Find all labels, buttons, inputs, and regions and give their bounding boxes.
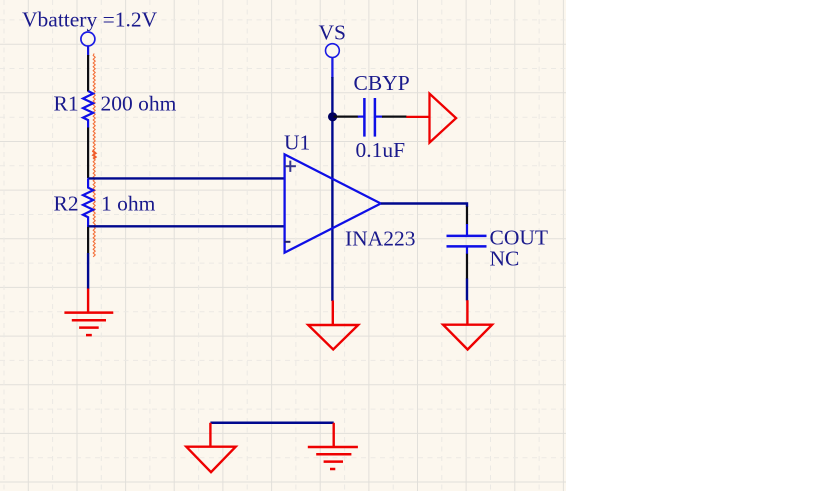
label COUT	[490, 226, 549, 250]
resistor R2	[83, 178, 93, 227]
wire battery top black segment	[87, 55, 89, 92]
wire junction to CBYP black segment	[334, 115, 359, 117]
svg-text:0.1uF: 0.1uF	[356, 138, 406, 162]
wire bottom left red segment	[209, 423, 211, 447]
wire Vbattery stub	[87, 46, 89, 56]
svg-text:INA223: INA223	[345, 227, 415, 251]
wire op-amp output	[381, 204, 467, 208]
svg-text:CBYP: CBYP	[354, 71, 410, 95]
label INA223	[345, 227, 415, 251]
wire R1 to node black segment	[87, 128, 89, 179]
port arrow right of CBYP	[406, 94, 456, 143]
label R1 value 200 ohm	[101, 92, 177, 116]
wire output to COUT black segment	[466, 207, 468, 225]
ground power port under op-amp	[308, 325, 358, 350]
wire COUT to ground black segment	[466, 254, 468, 279]
label R2 value 1 ohm	[101, 192, 156, 216]
label R2	[54, 192, 79, 216]
label U1	[284, 131, 310, 155]
wire R2 to ground black segment	[87, 227, 89, 254]
terminal circle Vbattery	[81, 32, 95, 46]
ground power port under COUT	[443, 325, 492, 350]
wire op-amp plus input	[88, 177, 285, 179]
ground battery earth symbol	[64, 313, 113, 336]
wire bottom right red segment	[333, 423, 335, 447]
label VS	[319, 21, 346, 45]
wire COUT ground navy segment	[466, 279, 468, 301]
capacitor CBYP	[358, 98, 383, 137]
svg-text:R1: R1	[54, 92, 79, 116]
wire VS supply vertical	[331, 58, 333, 302]
label CBYP	[354, 71, 410, 95]
op-amp minus pin mark	[284, 241, 290, 243]
error marker squiggle dense spot	[93, 150, 96, 160]
op-amp U1	[285, 154, 381, 252]
wire CBYP to port black segment	[382, 115, 407, 117]
svg-text:U1: U1	[284, 131, 310, 155]
wire op-amp minus input	[88, 225, 285, 227]
svg-text:1 ohm: 1 ohm	[101, 192, 156, 216]
ground power port bottom left	[186, 447, 235, 473]
wire COUT ground red segment	[466, 300, 468, 325]
junction dot VS node	[328, 112, 337, 121]
wire ground navy segment	[87, 253, 89, 289]
wire bottom horizontal	[210, 422, 333, 425]
label Vbattery =1.2V	[22, 8, 158, 32]
svg-text:VS: VS	[319, 21, 346, 45]
wire VS ground red segment	[332, 301, 334, 326]
error marker squiggle	[93, 54, 95, 257]
svg-text:Vbattery =1.2V: Vbattery =1.2V	[22, 8, 158, 32]
capacitor COUT	[447, 224, 487, 254]
svg-text:R2: R2	[54, 192, 79, 216]
svg-text:NC: NC	[490, 247, 520, 271]
svg-text:200 ohm: 200 ohm	[101, 92, 177, 116]
terminal circle VS	[326, 44, 340, 58]
op-amp plus pin mark	[285, 161, 296, 172]
ground earth symbol bottom right	[308, 447, 358, 469]
wire ground red segment	[87, 289, 89, 313]
label CBYP value 0.1uF	[356, 138, 406, 162]
label NC	[490, 247, 520, 271]
label R1	[54, 92, 79, 116]
resistor R1	[83, 91, 93, 128]
